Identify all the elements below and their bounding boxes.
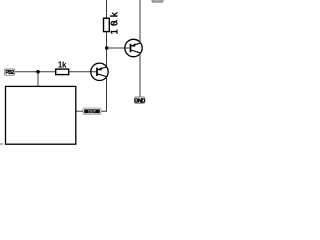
net label OUT (dark box on wire)	[83, 108, 101, 114]
resistor R2 1k body	[56, 69, 69, 75]
svg-text:GND: GND	[134, 98, 145, 104]
resistor R1 value label 10k (rotated, slashed zero)	[110, 9, 121, 35]
svg-text:OUT: OUT	[88, 110, 97, 114]
wire from left label to resistor R2	[15, 71, 56, 73]
wire from node B down to box	[37, 72, 39, 87]
wire Q2 base horizontal	[107, 47, 131, 49]
label fragment bottom-left (cut off)	[0, 143, 3, 145]
junction dot node A	[105, 46, 109, 50]
wire Q2 collector pin down to GND label	[139, 53, 141, 97]
wire from R2 to Q1 base	[69, 71, 98, 73]
transistor Q2 PNP	[125, 39, 142, 56]
svg-text:PB2: PB2	[5, 70, 14, 76]
wire from R1 bottom down to Q1 emitter	[106, 32, 108, 67]
resistor R1 10k body	[104, 18, 110, 31]
wire Q1 collector down then left to OUT label	[101, 77, 107, 111]
wire net VCC vertical into resistor R1 top	[106, 0, 108, 19]
junction dot node B	[36, 70, 40, 74]
net label top edge (cut off)	[152, 0, 163, 2]
wire from big box to OUT label	[76, 110, 83, 112]
svg-text:1k: 1k	[58, 61, 67, 70]
net label GND	[134, 97, 145, 104]
net label IN (left connector)	[4, 69, 14, 76]
transistor Q1 PNP	[91, 63, 108, 80]
wire Q2 emitter pin up to top edge	[139, 0, 141, 43]
IC U1 big box	[6, 86, 76, 144]
